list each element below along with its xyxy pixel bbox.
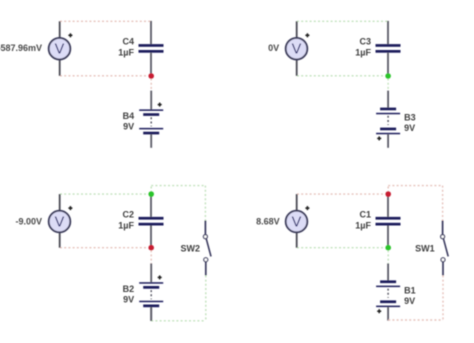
svg-text:SW2: SW2 [180, 244, 200, 254]
svg-text:V: V [55, 42, 65, 58]
svg-text:C1: C1 [359, 209, 371, 219]
svg-text:V: V [292, 42, 302, 58]
svg-text:1µF: 1µF [355, 48, 371, 58]
svg-text:8.68V: 8.68V [256, 216, 280, 226]
svg-text:B1: B1 [404, 286, 416, 296]
svg-text:C3: C3 [359, 37, 371, 47]
svg-text:9V: 9V [404, 296, 415, 306]
svg-text:1µF: 1µF [355, 220, 371, 230]
svg-text:V: V [292, 215, 302, 231]
svg-text:-9.00V: -9.00V [15, 216, 42, 226]
svg-text:1µF: 1µF [118, 220, 134, 230]
svg-text:V: V [55, 215, 65, 231]
svg-text:-587.96mV: -587.96mV [0, 43, 42, 53]
svg-text:9V: 9V [404, 123, 415, 133]
svg-text:B2: B2 [123, 284, 135, 294]
svg-text:SW1: SW1 [415, 244, 435, 254]
svg-text:B4: B4 [123, 111, 135, 121]
svg-text:1µF: 1µF [118, 48, 134, 58]
svg-text:C2: C2 [122, 209, 134, 219]
svg-text:0V: 0V [268, 43, 279, 53]
svg-text:B3: B3 [404, 113, 416, 123]
svg-text:C4: C4 [122, 37, 134, 47]
svg-text:9V: 9V [123, 294, 134, 304]
svg-text:9V: 9V [123, 122, 134, 132]
